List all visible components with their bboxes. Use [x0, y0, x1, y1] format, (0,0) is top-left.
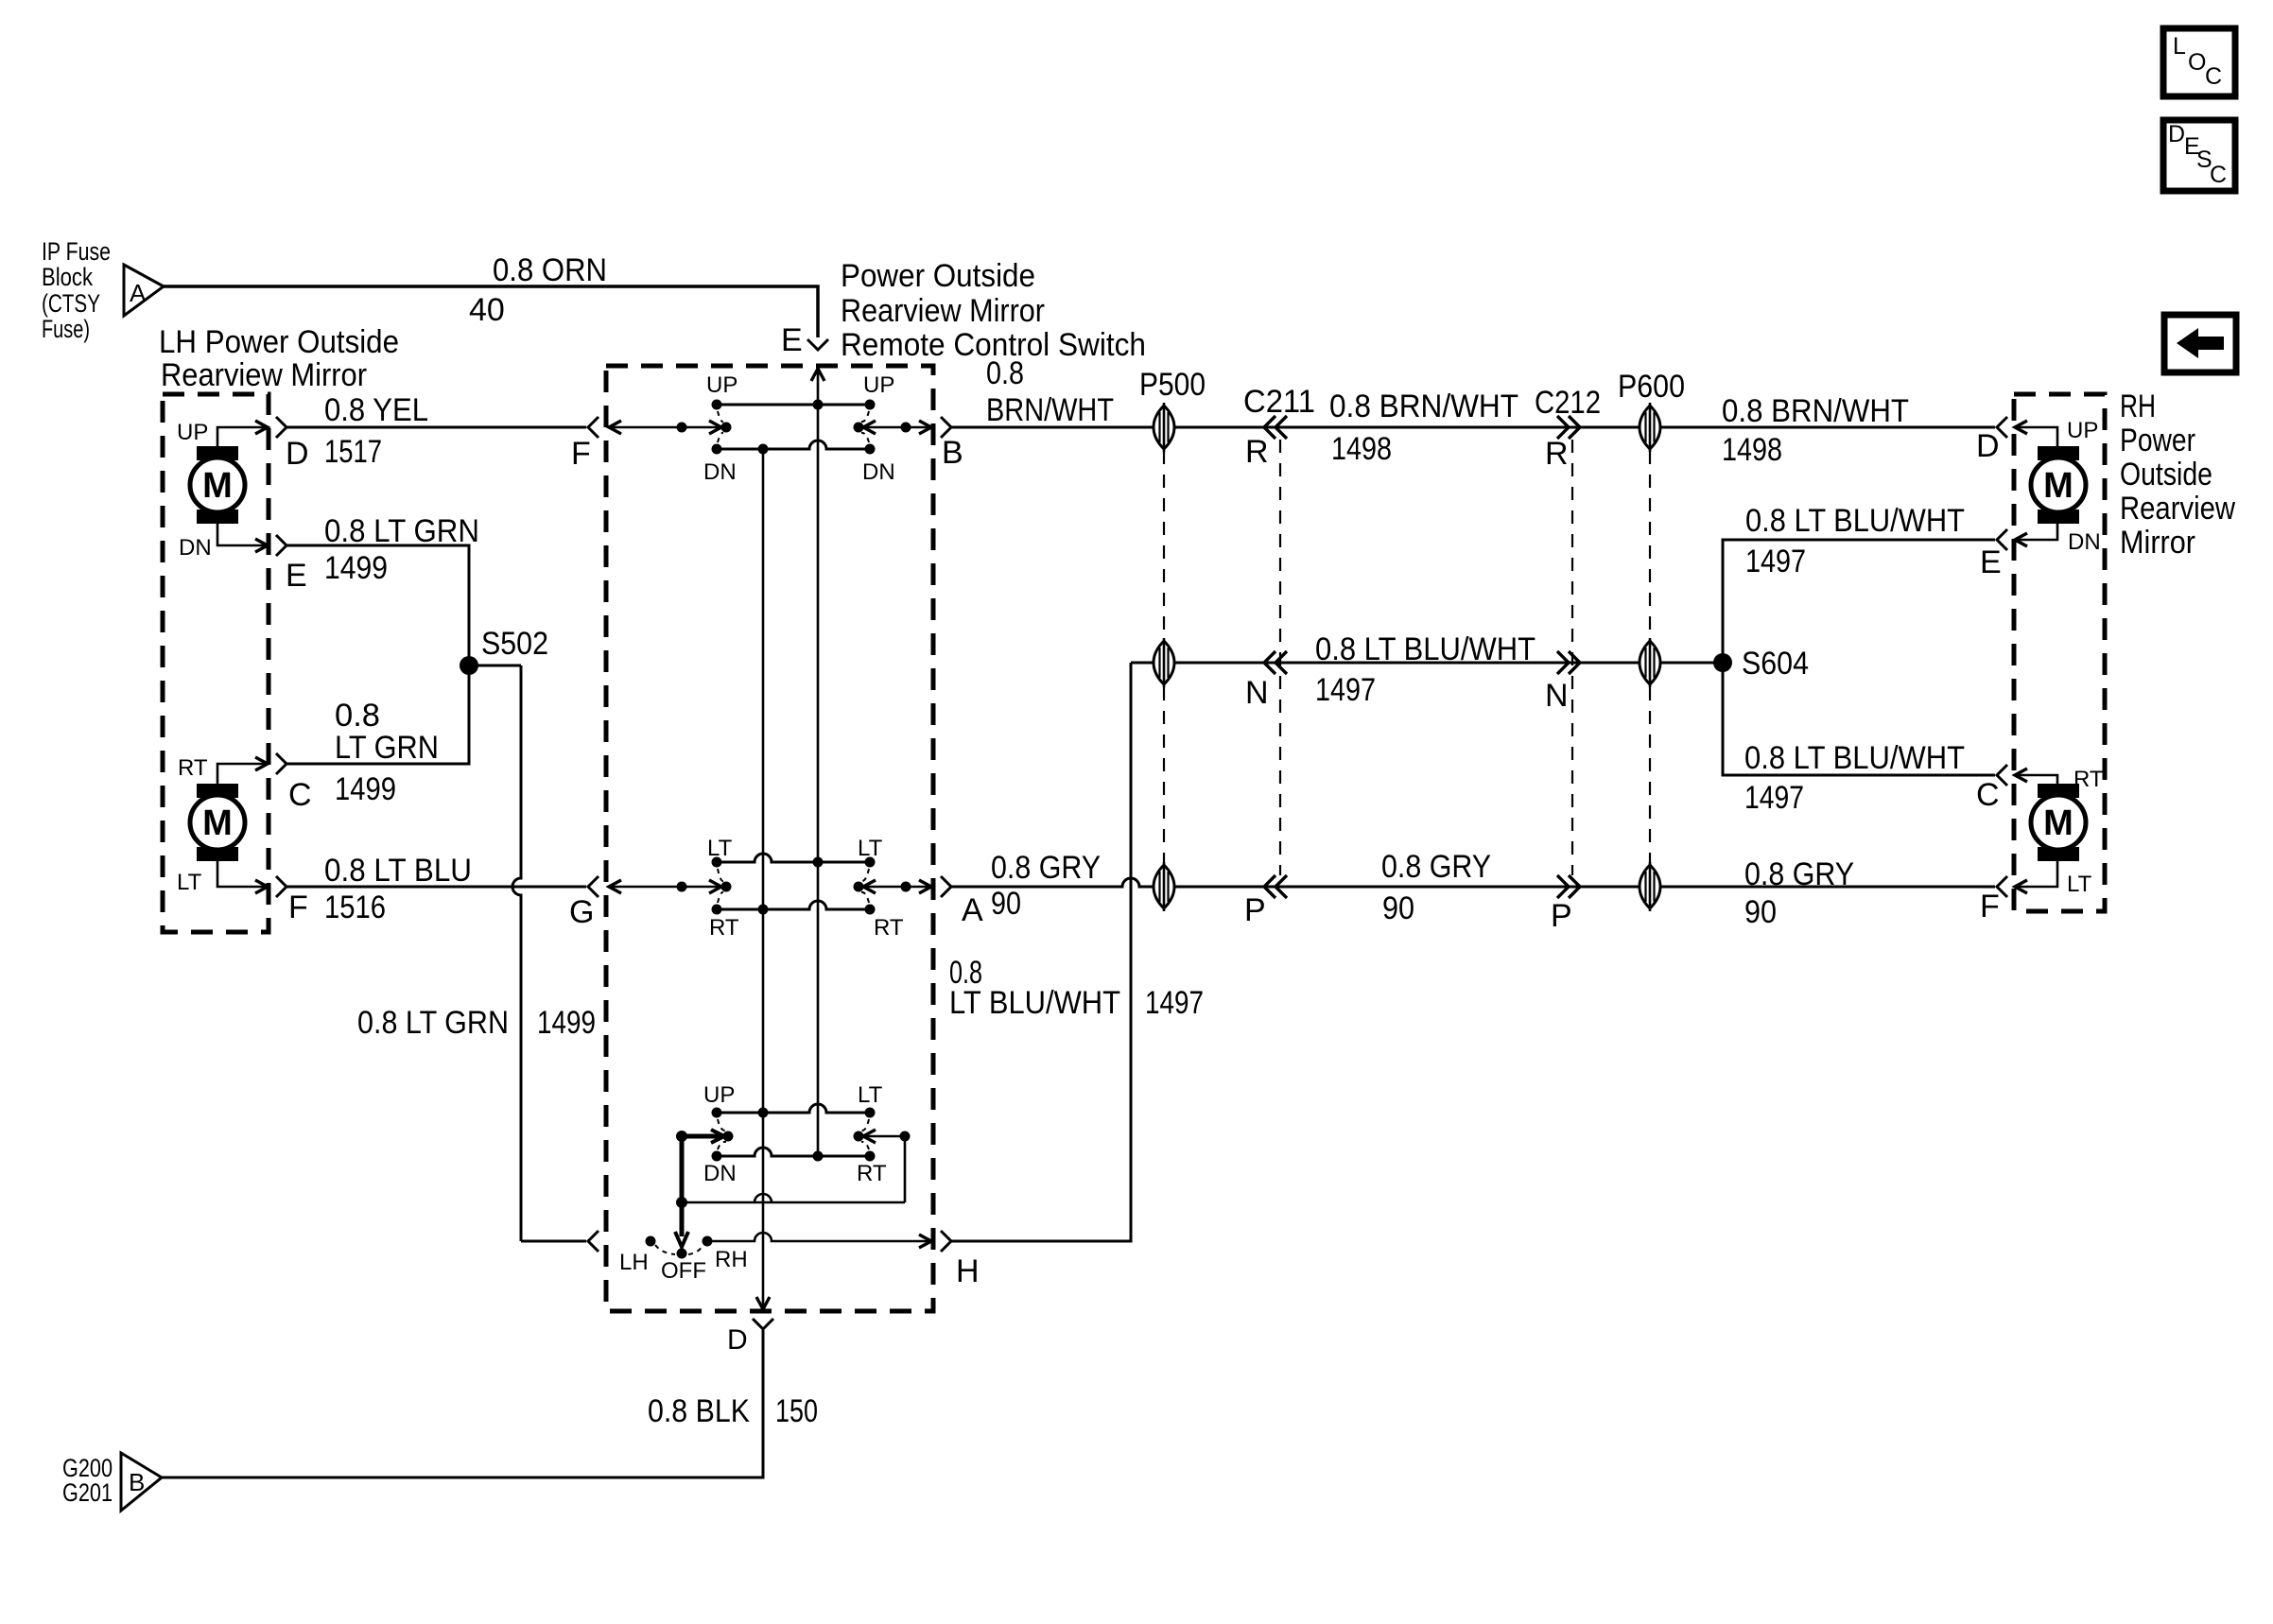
switch terminal D at bottom, wire 0.8 BLK 150 to ground — [162, 1319, 818, 1477]
svg-text:RT: RT — [178, 755, 208, 781]
svg-text:0.8 GRY: 0.8 GRY — [1381, 849, 1491, 885]
left/right switch LT contact row — [707, 836, 883, 868]
svg-text:0.8 LT BLU/WHT: 0.8 LT BLU/WHT — [1744, 740, 1965, 776]
RH Power Outside Rearview Mirror label — [2120, 389, 2235, 561]
remote control switch dashed outline box — [606, 366, 933, 1311]
svg-text:P: P — [1244, 892, 1266, 928]
LH motor UP lead to terminal D — [177, 420, 268, 446]
P500 connector on N wire — [1154, 641, 1174, 684]
svg-text:UP: UP — [706, 372, 737, 398]
svg-text:0.8 LT BLU/WHT: 0.8 LT BLU/WHT — [1745, 503, 1965, 539]
C211 harness dashed line — [1279, 440, 1281, 875]
svg-text:F: F — [1980, 889, 2000, 924]
svg-text:D: D — [1976, 428, 2000, 464]
svg-text:N: N — [1245, 675, 1269, 711]
svg-text:B: B — [129, 1468, 145, 1496]
svg-text:UP: UP — [863, 372, 894, 398]
svg-text:1497: 1497 — [1315, 672, 1376, 708]
terminal E of remote control switch — [781, 322, 828, 381]
wire 0.8 GRY 90 between C211 and C212 — [1381, 849, 1491, 926]
svg-text:M: M — [202, 803, 233, 843]
svg-text:C: C — [2210, 162, 2227, 188]
svg-text:L: L — [2173, 33, 2186, 60]
P500 connector on GRY wire — [1154, 865, 1174, 908]
back-arrow navigation box — [2164, 315, 2236, 372]
svg-text:IP Fuse: IP Fuse — [42, 237, 111, 266]
svg-text:UP: UP — [2067, 418, 2098, 443]
wire 0.8 BRN/WHT 1498 from P600 to RH mirror D — [1722, 393, 2007, 468]
svg-text:RH: RH — [715, 1247, 748, 1272]
svg-text:S502: S502 — [481, 626, 548, 662]
svg-text:C212: C212 — [1535, 385, 1601, 421]
svg-text:RT: RT — [2073, 767, 2104, 792]
svg-text:0.8 BRN/WHT: 0.8 BRN/WHT — [1722, 393, 1909, 429]
svg-text:P: P — [1551, 898, 1572, 934]
svg-text:LT: LT — [707, 836, 733, 861]
svg-text:40: 40 — [469, 292, 505, 328]
svg-text:Outside: Outside — [2120, 457, 2212, 492]
svg-text:0.8 YEL: 0.8 YEL — [324, 392, 428, 428]
RH motor UP lead from terminal D — [2015, 418, 2098, 446]
DESC reference box — [2163, 120, 2235, 191]
up/down switch UP contact row — [706, 372, 894, 410]
svg-text:R: R — [1545, 436, 1569, 472]
wire 0.8 LT BLU/WHT 1497 from S604 up to RH mirror E — [1723, 503, 2007, 663]
svg-text:1499: 1499 — [335, 771, 396, 807]
svg-text:90: 90 — [1382, 890, 1414, 926]
splice S502 — [460, 626, 548, 675]
RH power outside rearview mirror dashed outline box — [2014, 394, 2105, 911]
LH motor DN lead to terminal E — [179, 524, 268, 561]
RH motor RT lead from terminal C — [2015, 767, 2104, 792]
svg-text:DN: DN — [703, 459, 737, 485]
svg-text:1497: 1497 — [1145, 985, 1204, 1021]
LH Power Outside Rearview Mirror label — [159, 324, 399, 393]
wire 0.8 YEL 1517, LH mirror D to switch F — [276, 392, 599, 472]
svg-text:DN: DN — [703, 1161, 737, 1186]
connector C212 on BRN/WHT wire, cavity R — [1535, 385, 1601, 472]
svg-text:90: 90 — [1744, 894, 1777, 930]
svg-text:150: 150 — [775, 1393, 818, 1429]
svg-text:Mirror: Mirror — [2120, 525, 2195, 561]
wire 0.8 BRN/WHT 1498 between C211 and C212 — [1329, 389, 1518, 467]
wire from selector RH contact to switch terminal H — [707, 1233, 931, 1248]
switch internal vertical to selector and terminal D — [762, 449, 765, 1308]
selector LH-OFF-RH contacts — [619, 1236, 748, 1285]
svg-text:F: F — [571, 436, 591, 472]
svg-text:D: D — [2168, 121, 2185, 147]
svg-text:LT GRN: LT GRN — [335, 730, 439, 766]
svg-text:0.8 GRY: 0.8 GRY — [991, 850, 1101, 886]
svg-text:Fuse): Fuse) — [42, 315, 90, 343]
LH motor LT lead to terminal F — [177, 861, 268, 895]
svg-text:0.8 BRN/WHT: 0.8 BRN/WHT — [1329, 389, 1518, 424]
svg-text:(CTSY: (CTSY — [42, 289, 100, 318]
svg-text:DN: DN — [179, 535, 212, 561]
svg-text:D: D — [727, 1324, 748, 1356]
svg-text:UP: UP — [177, 420, 208, 445]
svg-text:1497: 1497 — [1745, 544, 1806, 579]
svg-text:P600: P600 — [1618, 369, 1685, 405]
ground triangle B (G200 G201) — [62, 1453, 162, 1511]
svg-text:LH: LH — [619, 1250, 649, 1275]
LH power outside rearview mirror dashed outline box — [163, 394, 269, 932]
svg-text:1517: 1517 — [324, 434, 382, 470]
RH motor LT lead from terminal F — [2015, 861, 2092, 897]
svg-text:M: M — [2043, 466, 2073, 506]
svg-text:G: G — [569, 894, 594, 930]
svg-text:Rearview Mirror: Rearview Mirror — [841, 293, 1045, 329]
svg-text:S604: S604 — [1742, 646, 1809, 682]
svg-text:M: M — [202, 466, 233, 506]
svg-text:M: M — [2043, 803, 2073, 843]
connector C211 on BRN/WHT wire, cavity R — [1243, 384, 1315, 470]
svg-text:0.8: 0.8 — [986, 355, 1024, 391]
svg-text:1499: 1499 — [324, 550, 388, 586]
left/right switch: G-side pole — [609, 869, 732, 903]
svg-text:LT BLU/WHT: LT BLU/WHT — [949, 985, 1120, 1021]
switch terminal H and wire 0.8 LT BLU/WHT 1497 riser — [941, 663, 1204, 1289]
svg-text:0.8 LT GRN: 0.8 LT GRN — [324, 513, 479, 549]
RH mirror up/down motor M — [2038, 446, 2079, 460]
wire 0.8 LT GRN 1499 from S502 down to switch terminal C — [357, 665, 599, 1252]
left/right switch: A-side pole — [854, 869, 932, 903]
svg-text:E: E — [286, 558, 307, 594]
wire 0.8 LT BLU/WHT 1497 from H riser to P500 (row N) — [1131, 631, 1723, 708]
svg-text:1497: 1497 — [1744, 780, 1804, 816]
RH mirror left/right motor M — [2038, 784, 2079, 798]
svg-text:1498: 1498 — [1331, 431, 1392, 467]
svg-text:Power: Power — [2120, 423, 2195, 458]
svg-text:B: B — [942, 435, 963, 471]
IP Fuse Block (CTSY Fuse) label — [42, 237, 111, 343]
wire 0.8 BRN/WHT to P500 — [941, 355, 1995, 438]
svg-text:C211: C211 — [1243, 384, 1315, 420]
svg-text:0.8: 0.8 — [335, 698, 380, 734]
svg-text:RH: RH — [2120, 389, 2156, 424]
LH mirror up/down motor M — [190, 446, 245, 524]
C212 connector on N wire, cavity N — [1545, 651, 1580, 714]
svg-text:Power Outside: Power Outside — [841, 258, 1035, 294]
svg-text:BRN/WHT: BRN/WHT — [986, 392, 1114, 428]
selector return wire to common — [676, 1136, 905, 1208]
svg-text:A: A — [130, 279, 147, 307]
splice S604 — [1713, 646, 1809, 682]
svg-text:LH Power Outside: LH Power Outside — [159, 324, 399, 360]
svg-text:D: D — [286, 436, 309, 472]
P600 connector on GRY wire — [1640, 865, 1660, 908]
svg-text:RT: RT — [709, 915, 739, 941]
power source triangle A (IP fuse block feed) — [124, 265, 164, 316]
svg-text:DN: DN — [862, 459, 895, 485]
C211 connector on N wire, cavity N — [1245, 651, 1287, 711]
svg-text:RT: RT — [874, 915, 904, 941]
selector switch UP contact row — [703, 1082, 883, 1118]
svg-text:E: E — [1980, 544, 2002, 580]
wire 0.8 LT GRN 1499, LH mirror E to splice S502 — [276, 513, 479, 665]
wire 0.8 LT BLU/WHT 1497 from S604 down to RH mirror C — [1723, 663, 2007, 816]
svg-text:0.8 LT BLU: 0.8 LT BLU — [324, 853, 472, 889]
up/down switch DN contact row — [703, 441, 895, 485]
P600 connector on N wire — [1640, 641, 1660, 684]
svg-text:RT: RT — [857, 1161, 887, 1186]
svg-text:C: C — [288, 777, 312, 813]
selector left pole with feed — [676, 1119, 734, 1149]
svg-text:UP: UP — [703, 1082, 735, 1108]
C211 connector on GRY wire, cavity P — [1244, 875, 1287, 928]
svg-text:0.8 ORN: 0.8 ORN — [493, 252, 607, 288]
svg-text:C: C — [1976, 777, 2000, 813]
RH motor DN lead from terminal E — [2015, 524, 2101, 555]
svg-text:H: H — [956, 1253, 980, 1289]
wire 0.8 LT GRN 1499, LH mirror C to splice S502 — [276, 675, 469, 813]
svg-text:1498: 1498 — [1722, 432, 1782, 468]
svg-text:0.8 BLK: 0.8 BLK — [648, 1393, 750, 1429]
pass-through connector P500 on BRN/WHT wire — [1139, 367, 1206, 452]
svg-text:0.8 GRY: 0.8 GRY — [1744, 856, 1854, 892]
svg-text:0.8 LT GRN: 0.8 LT GRN — [357, 1005, 509, 1041]
Power Outside Rearview Mirror Remote Control Switch label — [841, 258, 1146, 363]
selector right pole — [854, 1119, 911, 1149]
svg-text:C: C — [2205, 63, 2222, 90]
svg-text:Block: Block — [42, 263, 93, 291]
svg-text:E: E — [781, 322, 803, 358]
svg-text:1516: 1516 — [324, 890, 386, 925]
svg-text:G201: G201 — [62, 1478, 113, 1507]
C212 harness dashed line — [1571, 440, 1573, 875]
svg-text:F: F — [288, 890, 308, 925]
P600 harness dashed line — [1649, 451, 1651, 864]
svg-text:LT: LT — [2067, 872, 2092, 897]
up/down switch: F-side pole — [609, 411, 732, 442]
P500 harness dashed line — [1163, 451, 1165, 864]
LOC reference box — [2163, 28, 2235, 96]
selector switch DN contact row — [703, 1148, 887, 1186]
svg-text:1499: 1499 — [537, 1005, 596, 1041]
LH motor RT lead to terminal C — [178, 755, 268, 784]
svg-text:R: R — [1245, 434, 1269, 470]
switch terminal A, wire 0.8 GRY 90 — [941, 850, 1995, 928]
svg-text:LT: LT — [177, 870, 202, 895]
wire 0.8 LT BLU 1516, LH mirror F to switch G — [276, 853, 599, 930]
LH mirror left/right motor M — [190, 784, 245, 861]
svg-text:Rearview Mirror: Rearview Mirror — [161, 357, 367, 393]
C212 connector on GRY wire, cavity P — [1551, 875, 1580, 934]
svg-text:O: O — [2188, 49, 2206, 76]
wire 0.8 GRY 90 from P600 to RH mirror F — [1744, 856, 2007, 930]
svg-text:Rearview: Rearview — [2120, 491, 2235, 527]
switch feed wire from terminal E down the middle — [817, 369, 820, 1156]
wire 0.8 ORN 40 from fuse block to switch terminal E — [164, 252, 818, 337]
svg-text:LT: LT — [858, 1082, 883, 1108]
svg-text:90: 90 — [991, 886, 1021, 922]
svg-text:A: A — [962, 892, 983, 928]
up/down switch: B-side pole — [854, 411, 932, 442]
svg-text:DN: DN — [2068, 529, 2101, 555]
pass-through connector P600 on BRN/WHT wire — [1618, 369, 1685, 452]
selector moving contact arm — [675, 1136, 688, 1247]
svg-text:P500: P500 — [1139, 367, 1206, 403]
svg-text:N: N — [1545, 678, 1569, 714]
left/right switch RT contact row — [709, 901, 904, 941]
svg-text:OFF: OFF — [661, 1258, 706, 1284]
